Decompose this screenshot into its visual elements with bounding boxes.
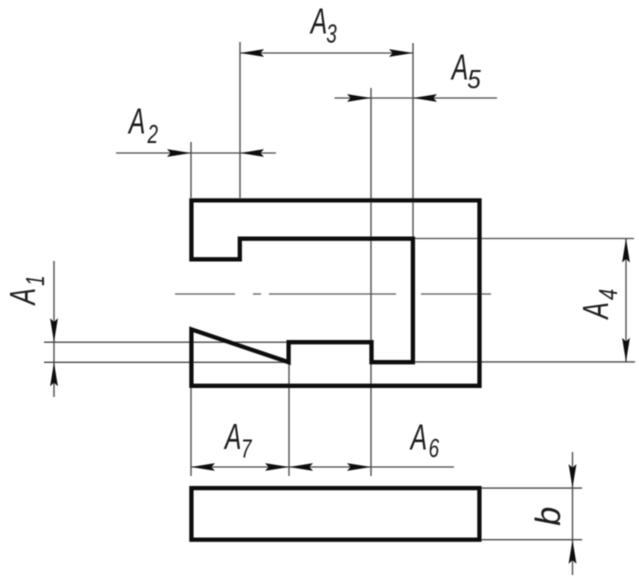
- svg-text:2: 2: [147, 119, 159, 149]
- svg-text:5: 5: [467, 64, 481, 94]
- svg-text:7: 7: [241, 434, 253, 464]
- svg-text:A: A: [409, 416, 427, 457]
- svg-text:3: 3: [326, 19, 337, 49]
- svg-text:A: A: [309, 0, 327, 41]
- svg-text:A: A: [450, 46, 468, 87]
- svg-text:4: 4: [593, 289, 623, 300]
- svg-text:1: 1: [20, 275, 50, 286]
- svg-text:A: A: [575, 302, 616, 320]
- svg-text:A: A: [224, 416, 242, 457]
- svg-text:b: b: [529, 507, 568, 526]
- svg-text:A: A: [128, 101, 146, 142]
- svg-text:6: 6: [429, 433, 440, 463]
- svg-text:A: A: [2, 288, 43, 306]
